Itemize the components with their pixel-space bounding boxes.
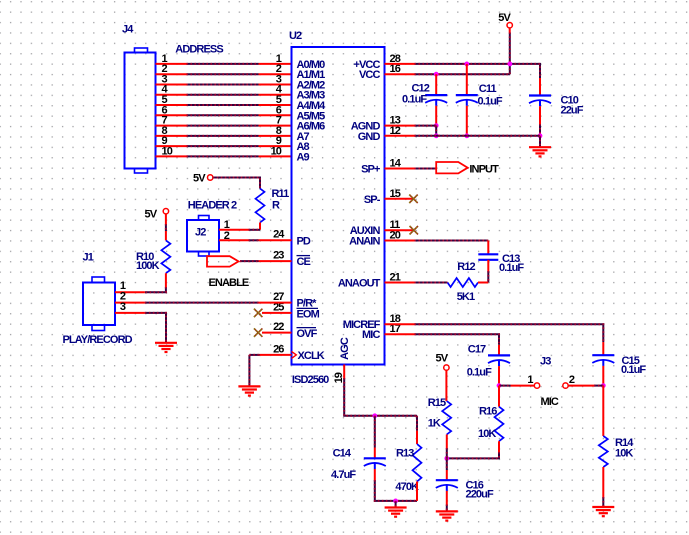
svg-text:10: 10 xyxy=(271,145,282,157)
U2 pin 2 stub xyxy=(259,73,292,75)
wire SP+ to INPUT xyxy=(415,168,437,170)
svg-text:10: 10 xyxy=(162,145,173,157)
capacitor C13 xyxy=(478,254,498,259)
junction +VCC/C11 xyxy=(464,62,469,67)
U2 pin 6 stub xyxy=(259,114,292,116)
power 5V top lead xyxy=(509,28,511,33)
resistor R15 bottom lead xyxy=(446,435,448,449)
IC U2 ISD2560 body xyxy=(292,47,385,365)
U2 pin 23 stub xyxy=(259,260,292,262)
svg-text:OVF: OVF xyxy=(297,328,318,340)
junction C17/J3-1/R16 xyxy=(497,383,502,388)
wire XCLK to ground xyxy=(249,354,259,356)
U2 pin 20 stub xyxy=(385,240,415,242)
J4 pin 8 stub xyxy=(156,135,187,137)
svg-text:PLAY/RECORD: PLAY/RECORD xyxy=(63,334,133,346)
J4 pin 7 stub xyxy=(156,125,187,127)
svg-text:100K: 100K xyxy=(136,260,160,272)
svg-text:ENABLE: ENABLE xyxy=(209,277,249,289)
U2 left pin names A0-A9 xyxy=(297,59,327,163)
svg-text:VCC: VCC xyxy=(359,69,380,81)
resistor R16 top lead xyxy=(498,386,500,407)
resistor R11 bottom lead xyxy=(259,223,261,230)
capacitor C12 xyxy=(425,95,447,106)
power 5V R11 xyxy=(193,173,213,185)
svg-text:J4: J4 xyxy=(122,24,134,36)
svg-text:0.1uF: 0.1uF xyxy=(467,366,492,378)
wire A9 net xyxy=(187,155,259,157)
U2 pin 21 stub xyxy=(385,282,415,284)
wire MIC xyxy=(415,334,500,345)
svg-text:220uF: 220uF xyxy=(466,489,494,501)
J3 pin 2 lead xyxy=(568,385,594,387)
connector J3 pin 2 xyxy=(563,383,568,388)
svg-text:1: 1 xyxy=(527,374,533,386)
svg-text:MIC: MIC xyxy=(362,329,380,341)
resistor R16 xyxy=(495,407,504,442)
wire A1 net xyxy=(187,73,259,75)
U2 pin 5 stub xyxy=(259,104,292,106)
svg-text:J1: J1 xyxy=(83,252,94,264)
wire A7 net xyxy=(187,135,259,137)
ground symbol under R14 xyxy=(592,507,614,516)
svg-text:R: R xyxy=(272,200,280,212)
svg-text:3: 3 xyxy=(120,301,126,313)
svg-text:0.1uF: 0.1uF xyxy=(499,262,524,274)
U2 pin 8 stub xyxy=(259,135,292,137)
capacitor C14 xyxy=(364,458,386,469)
svg-text:SP+: SP+ xyxy=(361,164,380,176)
J4 pin 10 stub xyxy=(156,155,187,157)
svg-text:5V: 5V xyxy=(436,353,449,365)
U2 pin 28 stub xyxy=(385,63,415,65)
no-connect OVF xyxy=(254,328,262,336)
resistor R11 xyxy=(256,189,265,223)
svg-text:R11: R11 xyxy=(272,188,290,200)
junction VCC/C12 xyxy=(434,72,439,77)
svg-text:EOM: EOM xyxy=(297,309,320,321)
ground lead under C14/R13 xyxy=(395,501,397,508)
ground symbol under J1 xyxy=(155,343,177,352)
junction +VCC/5V xyxy=(508,62,513,67)
U2 pin 3 stub xyxy=(259,84,292,86)
capacitor C17 xyxy=(488,355,510,366)
power 5V mic bias xyxy=(436,353,450,371)
wire A8 net xyxy=(187,145,259,147)
connector J4 xyxy=(125,48,156,173)
svg-text:22: 22 xyxy=(273,321,284,333)
capacitor C15 xyxy=(592,355,614,366)
wire MICREF xyxy=(415,324,604,342)
U2 pin 4 stub xyxy=(259,94,292,96)
capacitor C11 top lead xyxy=(466,64,468,95)
wire 5V to R11 xyxy=(213,178,260,189)
wire 5V to R15 xyxy=(445,370,447,401)
J4 pin 5 stub xyxy=(156,104,187,106)
U2 right pin names xyxy=(338,59,381,341)
svg-text:22uF: 22uF xyxy=(561,104,584,116)
svg-text:0.1uF: 0.1uF xyxy=(621,364,646,376)
svg-text:J3: J3 xyxy=(540,356,551,368)
resistor R15 xyxy=(442,401,451,435)
J4 pin 4 stub xyxy=(156,94,187,96)
svg-text:C17: C17 xyxy=(468,343,486,355)
J4 pin 6 stub xyxy=(156,114,187,116)
wire P/R* net xyxy=(145,302,259,304)
no-connect SP- xyxy=(409,195,417,203)
U2 pin 18 stub xyxy=(385,323,415,325)
junction AGC/C14 xyxy=(372,413,377,418)
U2 pin 22 stub xyxy=(262,332,292,334)
resistor R14 bottom lead xyxy=(602,467,604,497)
junction GND/C10 xyxy=(538,133,543,138)
J1 pin 2 lead xyxy=(115,302,145,304)
port INPUT xyxy=(436,162,468,173)
svg-text:R13: R13 xyxy=(396,448,414,460)
J3 pin 1 lead xyxy=(511,385,535,387)
svg-text:INPUT: INPUT xyxy=(469,163,499,175)
junction R15/R16/C16 xyxy=(444,456,449,461)
ground symbol under XCLK xyxy=(238,386,260,395)
power 5V R10 xyxy=(145,209,169,221)
svg-text:23: 23 xyxy=(273,250,284,262)
svg-text:C11: C11 xyxy=(479,83,497,95)
svg-text:R15: R15 xyxy=(428,397,446,409)
capacitor C10 xyxy=(529,96,551,107)
svg-text:2: 2 xyxy=(224,230,230,242)
resistor R12 xyxy=(448,278,479,287)
svg-text:GND: GND xyxy=(358,131,381,143)
capacitor C16 xyxy=(436,480,458,491)
wire A3 net xyxy=(187,94,259,96)
svg-text:R12: R12 xyxy=(457,261,475,273)
svg-text:R16: R16 xyxy=(479,405,497,417)
wire AGC down xyxy=(344,378,417,416)
wire 5V to R10 xyxy=(165,214,167,224)
svg-text:U2: U2 xyxy=(289,30,302,42)
svg-text:ANAOUT: ANAOUT xyxy=(338,278,381,290)
U2 pin 15 stub xyxy=(385,198,414,200)
J4 pin 9 stub xyxy=(156,145,187,147)
J1 pin 1 lead xyxy=(115,291,145,293)
svg-text:ISD2560: ISD2560 xyxy=(292,374,329,386)
svg-text:10K: 10K xyxy=(615,447,633,459)
wire C12 to GND rail xyxy=(435,126,437,136)
U2 pin 26 stub xyxy=(260,354,292,356)
J4 pin 2 stub xyxy=(156,73,187,75)
U2 pin 24 stub xyxy=(259,239,292,241)
wire CE xyxy=(240,260,259,262)
no-connect EOM xyxy=(254,309,262,317)
port ENABLE xyxy=(207,256,239,266)
ground symbol under C16 xyxy=(436,511,458,520)
resistor R10 xyxy=(161,240,170,273)
resistor R14 top lead xyxy=(602,386,604,436)
svg-text:A9: A9 xyxy=(297,151,310,163)
resistor R10 bottom lead xyxy=(165,273,167,287)
junction AGND/C12 xyxy=(434,123,439,128)
svg-text:1K: 1K xyxy=(428,418,441,430)
svg-text:10K: 10K xyxy=(478,428,496,440)
svg-text:5V: 5V xyxy=(193,173,206,185)
svg-text:0.1uF: 0.1uF xyxy=(478,95,503,107)
ground lead top right xyxy=(539,136,541,147)
svg-text:4.7uF: 4.7uF xyxy=(331,469,356,481)
wire GND rail xyxy=(415,135,541,137)
svg-text:XCLK: XCLK xyxy=(298,350,325,362)
svg-text:5V: 5V xyxy=(145,209,158,221)
svg-text:5K1: 5K1 xyxy=(457,291,475,303)
capacitor C10 top lead xyxy=(539,78,541,96)
wire +VCC rail xyxy=(415,64,541,78)
J4 pin 3 stub xyxy=(156,84,187,86)
connector J3 pin 1 xyxy=(534,383,539,388)
U2 pin 14 stub xyxy=(385,168,415,170)
wire PD xyxy=(249,239,259,241)
J4 pin 1 stub xyxy=(156,63,187,65)
svg-text:C14: C14 xyxy=(333,448,352,460)
U2 right pin numbers xyxy=(390,53,402,335)
wire VCC rail xyxy=(415,73,510,75)
junction C15/J3-2/R14 xyxy=(601,383,606,388)
svg-text:470K: 470K xyxy=(395,481,419,493)
U2 pin 10 stub xyxy=(259,155,292,157)
J1 pin 3 lead xyxy=(115,312,145,314)
U2 pin 17 stub xyxy=(385,333,415,335)
J2 pin 1 lead xyxy=(219,229,249,231)
svg-text:ANAIN: ANAIN xyxy=(349,236,380,248)
U2 left pin numbers xyxy=(273,229,285,356)
U2 pin 7 stub xyxy=(259,125,292,127)
U2 pin 25 stub xyxy=(262,312,292,314)
resistor R13 xyxy=(413,444,422,482)
wire AGND xyxy=(415,125,437,127)
U2 pin 1 stub xyxy=(259,63,292,65)
svg-text:SP-: SP- xyxy=(364,194,381,206)
J2 pin 2 lead xyxy=(219,239,249,241)
wire A5 net xyxy=(187,114,259,116)
wire 5V drop xyxy=(509,33,511,75)
junction GND/C12 xyxy=(434,133,439,138)
wire J1-3 to ground xyxy=(145,313,166,343)
resistor R14 xyxy=(599,436,608,467)
U2 pin 11 stub xyxy=(385,229,414,231)
capacitor C12 top lead xyxy=(435,74,437,95)
junction ground tap C14/R13 xyxy=(393,499,398,504)
svg-text:ADDRESS: ADDRESS xyxy=(175,43,223,55)
U2 pin 12 stub xyxy=(385,135,415,137)
resistor R16 bottom lead xyxy=(498,441,500,452)
svg-text:2: 2 xyxy=(569,374,575,386)
wire A6 net xyxy=(187,125,259,127)
no-connect AUXIN xyxy=(410,226,418,234)
connector J1 xyxy=(83,277,115,331)
svg-text:HEADER 2: HEADER 2 xyxy=(188,200,237,212)
svg-text:0.1uF: 0.1uF xyxy=(402,94,427,106)
U2 pin 13 stub xyxy=(385,125,415,127)
junction GND/C11 xyxy=(464,133,469,138)
wire ANAIN xyxy=(415,240,489,242)
wire A0 net xyxy=(187,63,259,65)
svg-text:CE: CE xyxy=(297,256,311,268)
svg-text:24: 24 xyxy=(273,229,285,241)
U2 pin 19 AGC stub xyxy=(343,365,345,379)
power 5V top xyxy=(498,12,512,28)
svg-text:J2: J2 xyxy=(195,227,206,239)
U2 pin 16 stub xyxy=(385,73,415,75)
svg-text:5V: 5V xyxy=(498,12,511,24)
wire A2 net xyxy=(187,84,259,86)
wire A4 net xyxy=(187,104,259,106)
svg-text:26: 26 xyxy=(273,343,284,355)
ground symbol under C14/R13 xyxy=(385,508,407,517)
capacitor C11 xyxy=(456,95,478,106)
wire ANAOUT xyxy=(415,282,448,284)
connector J2 xyxy=(187,216,219,257)
svg-text:MIC: MIC xyxy=(541,396,559,408)
U2 pin 9 stub xyxy=(259,145,292,147)
U2 pin 27 stub xyxy=(259,302,292,304)
svg-text:AGC: AGC xyxy=(339,337,351,360)
ground symbol top right xyxy=(529,147,551,156)
svg-text:PD: PD xyxy=(297,235,311,247)
